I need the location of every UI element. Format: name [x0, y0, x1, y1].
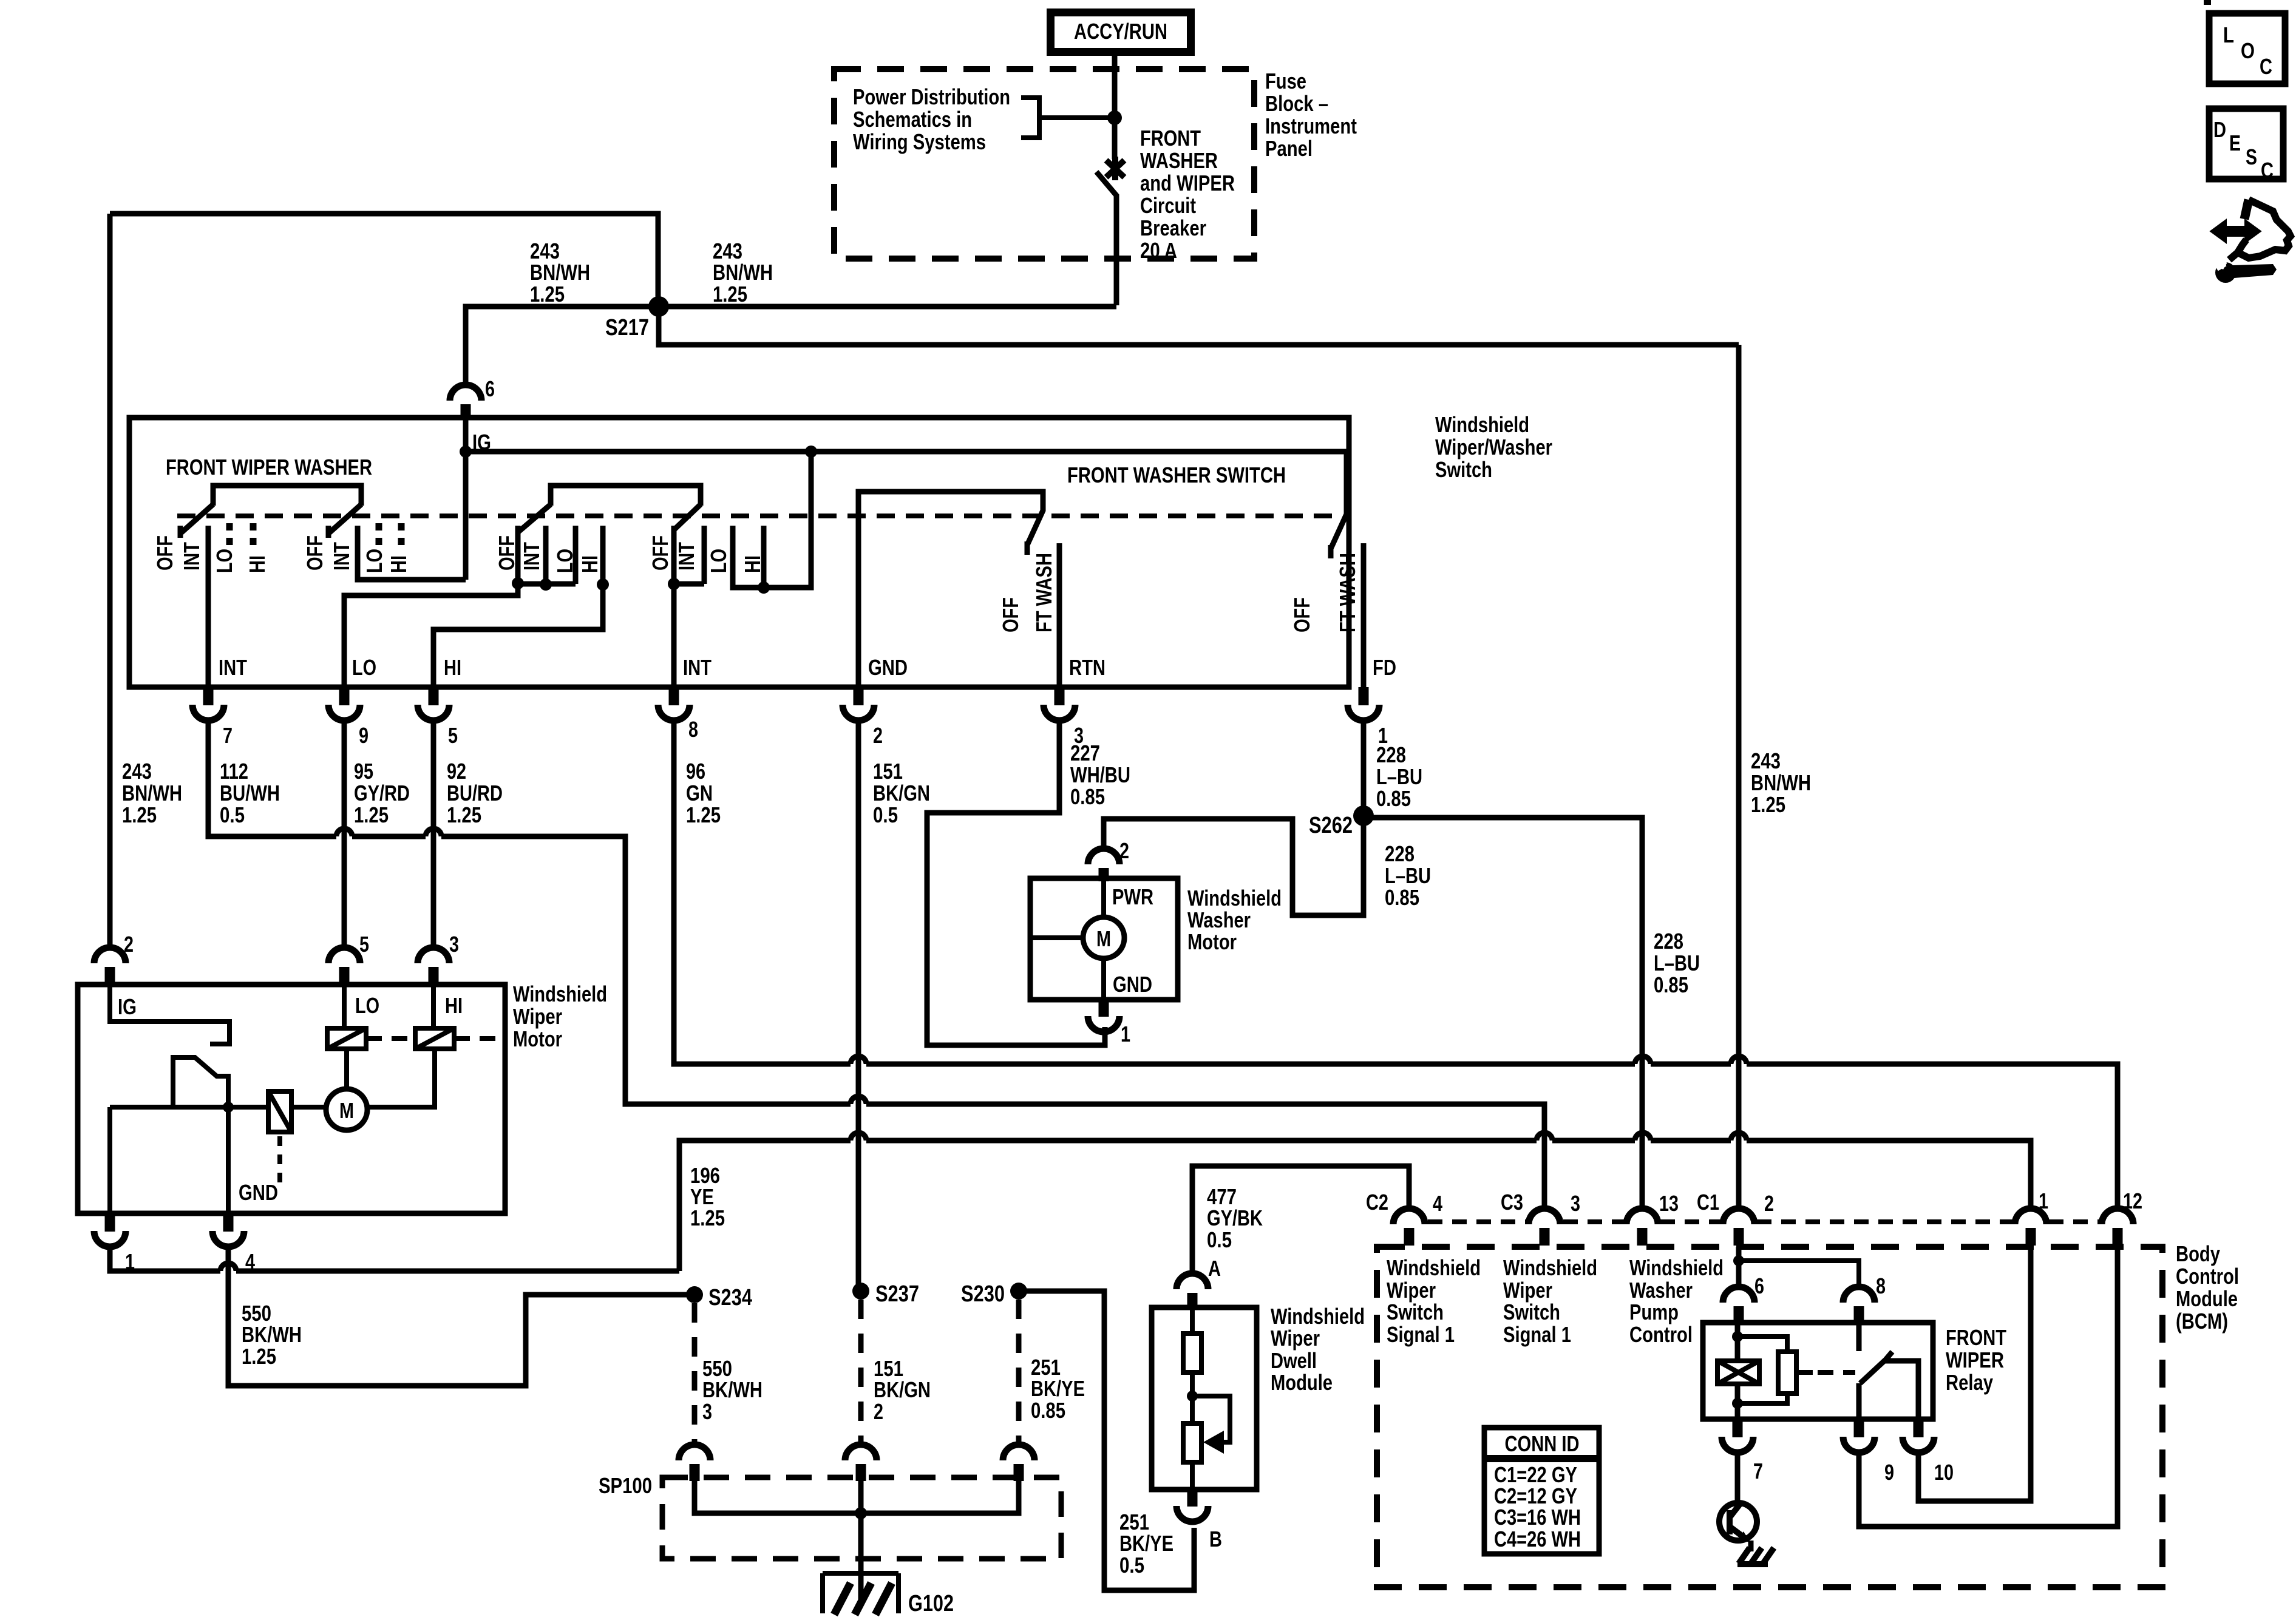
- svg-text:Motor: Motor: [513, 1026, 562, 1051]
- svg-text:GY/RD: GY/RD: [354, 781, 410, 805]
- node at gang4 drop: [805, 446, 817, 458]
- svg-text:Breaker: Breaker: [1140, 215, 1206, 240]
- washer gang left FT WASH contact to RTN: [1057, 543, 1062, 687]
- svg-text:228: 228: [1654, 929, 1683, 954]
- switch pin 7 connector: [192, 687, 233, 748]
- bracket to power distribution reference: [1021, 98, 1112, 138]
- wiper motor pin 5 connector: [328, 932, 369, 985]
- dashed link below resistor: [277, 1136, 282, 1184]
- junction node on breaker wire: [1107, 110, 1122, 125]
- svg-text:1.25: 1.25: [690, 1205, 725, 1230]
- svg-text:WH/BU: WH/BU: [1070, 762, 1130, 787]
- svg-text:Control: Control: [1629, 1322, 1693, 1347]
- svg-text:9: 9: [359, 723, 369, 748]
- wire relay 10 to BCM pin 1: [1918, 1247, 2031, 1501]
- dwell pin A connector: [1177, 1256, 1221, 1307]
- switch pin 1 connector: [1348, 687, 1388, 748]
- svg-text:S237: S237: [875, 1281, 919, 1307]
- svg-text:OFF: OFF: [648, 535, 673, 571]
- svg-text:INT: INT: [683, 655, 712, 680]
- svg-text:228: 228: [1385, 841, 1415, 866]
- svg-text:L–BU: L–BU: [1385, 863, 1431, 888]
- svg-text:PWR: PWR: [1112, 884, 1153, 909]
- svg-text:Body: Body: [2176, 1241, 2220, 1266]
- gang1 HI dotted tick: [250, 523, 257, 545]
- svg-text:HI: HI: [245, 555, 270, 573]
- LO relay coil: [327, 1028, 366, 1049]
- svg-text:BU/RD: BU/RD: [447, 781, 503, 805]
- S262 zigzag wire to washer motor pin 2: [1104, 816, 1364, 915]
- gang3 LO contact tick: [518, 526, 576, 585]
- svg-text:HI: HI: [444, 655, 461, 680]
- svg-text:RTN: RTN: [1069, 655, 1106, 680]
- connector 6 at switch box top: [450, 385, 481, 401]
- svg-text:Windshield: Windshield: [1435, 412, 1529, 437]
- windshield wiper motor box: [78, 985, 505, 1213]
- windshield wiper dwell module box: [1152, 1307, 1257, 1490]
- svg-text:S217: S217: [605, 315, 649, 341]
- svg-text:C3: C3: [1501, 1190, 1523, 1215]
- wire 96 GN: pin8 to BCM 12: [674, 723, 2118, 1209]
- svg-text:BN/WH: BN/WH: [530, 260, 590, 285]
- svg-text:228: 228: [1376, 742, 1406, 767]
- svg-text:BK/WH: BK/WH: [242, 1322, 302, 1347]
- gang2 HI dotted tick: [398, 523, 405, 545]
- svg-text:FT WASH: FT WASH: [1031, 553, 1056, 632]
- svg-text:Wiper: Wiper: [1503, 1278, 1552, 1303]
- left wire 243 BN/WH down to wiper motor pin 2: [107, 214, 113, 947]
- svg-text:96: 96: [686, 759, 705, 784]
- svg-text:GY/BK: GY/BK: [1207, 1205, 1263, 1230]
- wire S217 horizontal to breaker: [659, 304, 1116, 310]
- wiper motor pin 2 connector: [94, 932, 134, 985]
- IG feed wire into box: [463, 418, 469, 580]
- svg-text:2: 2: [874, 1399, 883, 1424]
- wire 112 BU/WH: pin7 to BCM C3-3: [208, 723, 1544, 1209]
- svg-text:1.25: 1.25: [242, 1344, 276, 1369]
- dashed connector row line: [1428, 1219, 2100, 1224]
- svg-text:3: 3: [702, 1399, 712, 1424]
- svg-text:243: 243: [122, 759, 152, 784]
- svg-text:0.85: 0.85: [1070, 784, 1105, 809]
- svg-text:Windshield: Windshield: [513, 981, 607, 1006]
- gang4 INT contact wire to INT terminal: [674, 526, 704, 687]
- relay suppression resistor: [1737, 1337, 1813, 1403]
- splice S230: [1010, 1283, 1027, 1300]
- svg-text:Module: Module: [1271, 1370, 1333, 1395]
- gang3 wiper arm: [518, 504, 551, 532]
- wiper motor pin 4 connector: [212, 1213, 255, 1274]
- svg-text:HI: HI: [740, 555, 765, 573]
- svg-text:D: D: [2213, 117, 2226, 142]
- svg-text:LO: LO: [706, 549, 731, 573]
- pin C2-4 connector: [1393, 1209, 1425, 1246]
- svg-text:BK/WH: BK/WH: [702, 1377, 763, 1402]
- svg-text:Circuit: Circuit: [1140, 193, 1196, 218]
- LOC legend box: [2209, 13, 2285, 84]
- park resistor (vertical coil with slash): [268, 1091, 291, 1132]
- gang4 wiper arm: [674, 504, 701, 530]
- svg-text:Switch: Switch: [1435, 457, 1492, 482]
- svg-text:Control: Control: [2176, 1264, 2239, 1289]
- svg-text:BK/YE: BK/YE: [1031, 1376, 1085, 1401]
- splice S234: [686, 1286, 703, 1303]
- svg-text:Switch: Switch: [1503, 1300, 1560, 1324]
- switch pin 8 connector: [658, 687, 698, 742]
- svg-text:E: E: [2229, 131, 2241, 155]
- splice S237: [852, 1283, 869, 1300]
- svg-text:Windshield: Windshield: [1187, 886, 1282, 910]
- windshield wiper/washer switch box: [129, 418, 1349, 687]
- svg-text:C: C: [2260, 54, 2272, 79]
- svg-text:INT: INT: [179, 542, 204, 571]
- svg-text:LO: LO: [352, 655, 376, 680]
- gang1 LO dotted tick: [226, 523, 233, 545]
- CONN ID table: [1484, 1428, 1599, 1554]
- svg-text:INT: INT: [674, 542, 699, 571]
- pin 13 connector: [1626, 1209, 1658, 1246]
- svg-text:12: 12: [2123, 1188, 2142, 1213]
- svg-text:(BCM): (BCM): [2176, 1309, 2228, 1334]
- svg-text:BN/WH: BN/WH: [1751, 770, 1811, 795]
- svg-text:7: 7: [1753, 1459, 1763, 1483]
- svg-text:1: 1: [1121, 1022, 1130, 1046]
- gang1 INT contact wire to INT terminal: [206, 526, 211, 687]
- svg-text:S262: S262: [1309, 813, 1353, 838]
- svg-text:BK/GN: BK/GN: [874, 1377, 931, 1402]
- svg-text:Pump: Pump: [1629, 1300, 1679, 1324]
- svg-text:BU/WH: BU/WH: [220, 781, 280, 805]
- wire S217 left branch down to connector 6: [466, 307, 659, 385]
- svg-text:C2: C2: [1366, 1190, 1388, 1215]
- gang4 HI contact to IG drop: [733, 452, 811, 588]
- svg-text:Module: Module: [2176, 1286, 2238, 1311]
- DESC legend box: [2209, 109, 2283, 179]
- page corner mark: [2204, 0, 2211, 5]
- svg-text:INT: INT: [519, 542, 544, 571]
- svg-text:1.25: 1.25: [1751, 792, 1785, 817]
- svg-text:S230: S230: [961, 1281, 1005, 1307]
- svg-text:IG: IG: [118, 994, 137, 1019]
- dwell internal resistor 1: [1183, 1307, 1201, 1423]
- svg-text:95: 95: [354, 759, 373, 784]
- park switch lever: [173, 1057, 228, 1107]
- svg-text:HI: HI: [445, 993, 463, 1018]
- dashed wire 151 BK/GN 2 to SP100: [858, 1300, 864, 1446]
- dwell pin B connector: [1177, 1490, 1222, 1551]
- svg-text:C: C: [2261, 158, 2274, 183]
- svg-text:INT: INT: [219, 655, 247, 680]
- washer motor pin 2 connector: [1088, 838, 1129, 881]
- svg-text:4: 4: [1433, 1191, 1442, 1216]
- wire 243 BN/WH top-left run to S217: [110, 214, 658, 307]
- dashed links between coils: [366, 1036, 498, 1041]
- relay pin 7 connector: [1722, 1419, 1763, 1483]
- svg-text:Block –: Block –: [1265, 91, 1328, 116]
- svg-text:L: L: [2223, 22, 2234, 47]
- svg-text:OFF: OFF: [998, 597, 1023, 632]
- svg-text:INT: INT: [329, 542, 354, 571]
- svg-text:C4=26 WH: C4=26 WH: [1494, 1527, 1581, 1551]
- svg-text:FRONT: FRONT: [1946, 1325, 2006, 1350]
- washer gang left: feed from GND terminal: [858, 492, 1043, 687]
- svg-text:7: 7: [223, 723, 233, 748]
- ground wire to G102: [858, 1513, 864, 1602]
- svg-text:0.5: 0.5: [220, 802, 245, 827]
- relay pin 6 connector: [1723, 1273, 1764, 1323]
- svg-text:Instrument: Instrument: [1265, 114, 1357, 138]
- SP100 splice pack dashed box: [662, 1477, 1061, 1559]
- svg-text:5: 5: [448, 723, 458, 748]
- svg-text:8: 8: [688, 717, 698, 742]
- svg-text:6: 6: [1754, 1273, 1764, 1298]
- svg-text:LO: LO: [362, 549, 387, 573]
- wire 228 L-BU: pin1 FD down to S262: [1361, 723, 1367, 816]
- relay pin 8 connector: [1843, 1273, 1886, 1323]
- svg-text:WIPER: WIPER: [1946, 1347, 2004, 1372]
- mechanical link dashed line: [177, 514, 1336, 518]
- svg-text:227: 227: [1070, 741, 1100, 765]
- ground G102 symbol: [823, 1573, 898, 1613]
- pin1 wire to ground bus: [110, 1248, 679, 1271]
- S262 branch to washer pump control: [1364, 818, 1642, 1209]
- svg-text:SP100: SP100: [599, 1473, 652, 1498]
- svg-text:151: 151: [873, 759, 903, 784]
- svg-text:C1: C1: [1697, 1190, 1719, 1215]
- svg-text:GND: GND: [1113, 972, 1152, 997]
- SP100 internal bus: [695, 1481, 1019, 1513]
- wire 196 YE: ground bus up-over to BCM 1: [679, 1133, 2031, 1271]
- svg-text:CONN ID: CONN ID: [1505, 1431, 1580, 1456]
- svg-text:1.25: 1.25: [713, 282, 747, 307]
- wrench icon: [2233, 264, 2277, 278]
- svg-text:BN/WH: BN/WH: [713, 260, 773, 285]
- wire S230 to dwell module B: [1019, 1291, 1194, 1590]
- svg-text:0.5: 0.5: [1119, 1553, 1144, 1578]
- windshield washer motor box: [1030, 878, 1178, 1000]
- svg-text:S234: S234: [708, 1285, 752, 1310]
- gang1 wiper arm: [180, 504, 213, 538]
- driver transistor: [1735, 1454, 1741, 1503]
- svg-text:S: S: [2246, 144, 2257, 169]
- svg-text:Wiring Systems: Wiring Systems: [853, 129, 986, 154]
- svg-text:M: M: [1096, 926, 1111, 951]
- relay pin 9 connector: [1843, 1419, 1894, 1485]
- svg-text:BN/WH: BN/WH: [122, 781, 182, 805]
- svg-text:5: 5: [359, 932, 369, 957]
- svg-text:LO: LO: [552, 549, 577, 573]
- pin 12 connector: [2102, 1209, 2133, 1246]
- svg-text:FD: FD: [1373, 655, 1396, 680]
- svg-text:Signal 1: Signal 1: [1387, 1322, 1455, 1347]
- svg-text:Wiper: Wiper: [1387, 1278, 1436, 1303]
- svg-text:ACCY/RUN: ACCY/RUN: [1074, 19, 1167, 44]
- svg-text:Dwell: Dwell: [1271, 1348, 1317, 1373]
- pin C3-3 connector: [1529, 1209, 1560, 1246]
- svg-text:Panel: Panel: [1265, 136, 1313, 161]
- internal wire from pin 2 to relay: [1736, 1247, 1742, 1287]
- relay switch contacts: [1859, 1323, 1918, 1419]
- wiper motor pin 3 connector: [418, 932, 459, 985]
- HI relay coil: [415, 1028, 454, 1049]
- gang2 wiper arm: [328, 504, 361, 538]
- svg-text:1.25: 1.25: [686, 802, 721, 827]
- pot wiper arrow: [1192, 1396, 1230, 1442]
- svg-text:Power Distribution: Power Distribution: [853, 84, 1010, 109]
- svg-text:2: 2: [124, 932, 134, 957]
- switch pin 2 connector: [843, 687, 883, 748]
- dwell internal potentiometer: [1183, 1423, 1201, 1490]
- svg-text:0.85: 0.85: [1385, 885, 1419, 910]
- pin4 550 BK/WH wire to S234: [228, 1248, 687, 1386]
- svg-text:Wiper: Wiper: [513, 1004, 562, 1029]
- splice S217: [648, 296, 669, 317]
- svg-text:20 A: 20 A: [1140, 238, 1177, 263]
- svg-text:LO: LO: [355, 993, 379, 1018]
- svg-text:M: M: [339, 1098, 354, 1123]
- fuse block dashed box: [834, 69, 1254, 259]
- svg-text:1.25: 1.25: [530, 282, 565, 307]
- gang3 HI contact wire: [433, 526, 603, 687]
- svg-text:C3=16 WH: C3=16 WH: [1494, 1505, 1581, 1530]
- pin C1-2 connector: [1723, 1209, 1754, 1246]
- relay coil (box with X): [1735, 1323, 1741, 1419]
- svg-text:OFF: OFF: [302, 535, 327, 571]
- svg-text:2: 2: [1119, 838, 1129, 863]
- washer gang right: feed from IG rail: [1331, 452, 1347, 558]
- wire 92 BU/RD: pin5 to wiper motor HI: [431, 723, 436, 947]
- svg-text:L–BU: L–BU: [1654, 951, 1700, 975]
- svg-text:1: 1: [2039, 1188, 2048, 1213]
- svg-text:O: O: [2241, 38, 2255, 63]
- branch to relay pin 8: [1739, 1261, 1859, 1287]
- svg-text:0.85: 0.85: [1376, 786, 1411, 811]
- dashed wire 251 BK/YE 0.85 to SP100: [1016, 1300, 1022, 1446]
- svg-text:Windshield: Windshield: [1503, 1255, 1597, 1280]
- svg-text:0.85: 0.85: [1031, 1398, 1065, 1423]
- dashed wire 550 BK/WH 3 to SP100: [692, 1303, 698, 1446]
- BCM dashed border: [1377, 1247, 2162, 1587]
- svg-text:Switch: Switch: [1387, 1300, 1444, 1324]
- GND wire to pin 4: [226, 1107, 231, 1213]
- wire 227 WH/BU: pin3 RTN to washer motor pin1: [927, 723, 1105, 1045]
- svg-text:0.5: 0.5: [1207, 1227, 1232, 1252]
- svg-text:1.25: 1.25: [447, 802, 481, 827]
- switch pin 9 connector: [328, 687, 369, 748]
- svg-text:A: A: [1208, 1256, 1221, 1281]
- gang3 INT contact wire: [344, 526, 518, 687]
- svg-text:1.25: 1.25: [354, 802, 389, 827]
- gang3-4 linkage bridge: [551, 486, 701, 506]
- wire relay 9 to BCM pin 12: [1859, 1247, 2118, 1527]
- node on IG rail: [460, 446, 472, 458]
- dashed actuator link: [1818, 1370, 1855, 1375]
- svg-text:0.85: 0.85: [1654, 972, 1688, 997]
- gang2 INT contact wire looped to IG: [358, 526, 466, 580]
- park switch common rail to pin 1: [110, 1107, 268, 1213]
- svg-text:2: 2: [1764, 1191, 1774, 1216]
- svg-text:OFF: OFF: [1289, 597, 1314, 632]
- svg-text:8: 8: [1876, 1273, 1886, 1298]
- svg-text:HI: HI: [386, 555, 411, 573]
- svg-text:9: 9: [1884, 1460, 1894, 1485]
- svg-text:OFF: OFF: [152, 535, 177, 571]
- svg-text:Wiper: Wiper: [1271, 1326, 1320, 1351]
- svg-text:92: 92: [447, 759, 466, 784]
- svg-text:Washer: Washer: [1187, 907, 1251, 932]
- wire 95 GY/RD: pin9 to wiper motor LO: [342, 723, 347, 947]
- svg-text:LO: LO: [212, 549, 237, 573]
- svg-text:FT WASH: FT WASH: [1335, 553, 1360, 632]
- svg-text:GN: GN: [686, 781, 713, 805]
- switch pin 3 connector: [1044, 687, 1084, 748]
- wire 477 GY/BK: dwell module A to BCM C2-4: [1192, 1166, 1409, 1273]
- svg-text:HI: HI: [577, 555, 602, 573]
- wire from ACCY/RUN down to circuit breaker: [1112, 56, 1118, 159]
- svg-text:B: B: [1209, 1527, 1222, 1551]
- coil wires: [344, 985, 433, 1089]
- washer motor pin 1 connector: [1088, 1000, 1130, 1046]
- svg-text:Windshield: Windshield: [1387, 1255, 1481, 1280]
- svg-text:Schematics in: Schematics in: [853, 107, 972, 132]
- svg-text:BK/YE: BK/YE: [1119, 1531, 1173, 1556]
- svg-text:Windshield: Windshield: [1629, 1255, 1724, 1280]
- svg-text:Motor: Motor: [1187, 929, 1237, 954]
- svg-text:243: 243: [1751, 748, 1781, 773]
- svg-text:13: 13: [1659, 1191, 1679, 1216]
- ACCY/RUN power tag box: [1047, 8, 1195, 56]
- svg-text:FRONT: FRONT: [1140, 126, 1201, 151]
- svg-text:Washer: Washer: [1629, 1278, 1693, 1303]
- hand with double arrow icon: [2244, 200, 2249, 219]
- svg-text:0.5: 0.5: [873, 802, 898, 827]
- svg-text:Fuse: Fuse: [1265, 69, 1306, 93]
- washer M motor circle: [1030, 881, 1104, 1000]
- junction node: [223, 1102, 234, 1113]
- motor M circle: [291, 1105, 326, 1110]
- svg-text:FRONT WIPER WASHER: FRONT WIPER WASHER: [166, 455, 372, 480]
- FRONT WIPER relay box: [1703, 1323, 1933, 1419]
- wire 151 BK/GN: pin2 GND down to S237: [856, 723, 861, 1291]
- svg-text:L–BU: L–BU: [1376, 764, 1422, 789]
- circuit breaker CB symbol (x mark + lever): [1106, 157, 1124, 180]
- motor to HI coil path: [367, 1049, 435, 1107]
- svg-text:10: 10: [1934, 1460, 1954, 1485]
- switch pin 5 connector: [418, 687, 458, 748]
- svg-text:Windshield: Windshield: [1271, 1304, 1365, 1329]
- svg-text:BK/GN: BK/GN: [873, 781, 930, 805]
- gang2 LO dotted tick: [376, 523, 382, 545]
- svg-text:Signal 1: Signal 1: [1503, 1322, 1571, 1347]
- relay pin 10 connector: [1903, 1419, 1954, 1485]
- gang1-2 linkage bridge: [213, 486, 361, 506]
- splice S262: [1353, 805, 1374, 826]
- svg-text:OFF: OFF: [494, 535, 519, 571]
- wire S217 lower branch to BCM right side: [659, 307, 1739, 345]
- svg-text:3: 3: [1571, 1191, 1580, 1216]
- svg-text:FRONT WASHER SWITCH: FRONT WASHER SWITCH: [1067, 463, 1286, 487]
- wire 243 BN/WH right vertical to BCM C1-2: [1736, 345, 1742, 1209]
- IG rail across box: [466, 449, 1347, 455]
- svg-text:112: 112: [220, 759, 248, 784]
- svg-text:Wiper/Washer: Wiper/Washer: [1435, 435, 1552, 459]
- svg-text:GND: GND: [239, 1180, 278, 1205]
- SP100 connector for S237 wire: [845, 1445, 877, 1481]
- svg-text:G102: G102: [908, 1591, 954, 1616]
- SP100 connector for S234 wire: [679, 1445, 710, 1481]
- svg-text:3: 3: [449, 932, 459, 957]
- washer gang right FT WASH contact to FD: [1361, 543, 1367, 687]
